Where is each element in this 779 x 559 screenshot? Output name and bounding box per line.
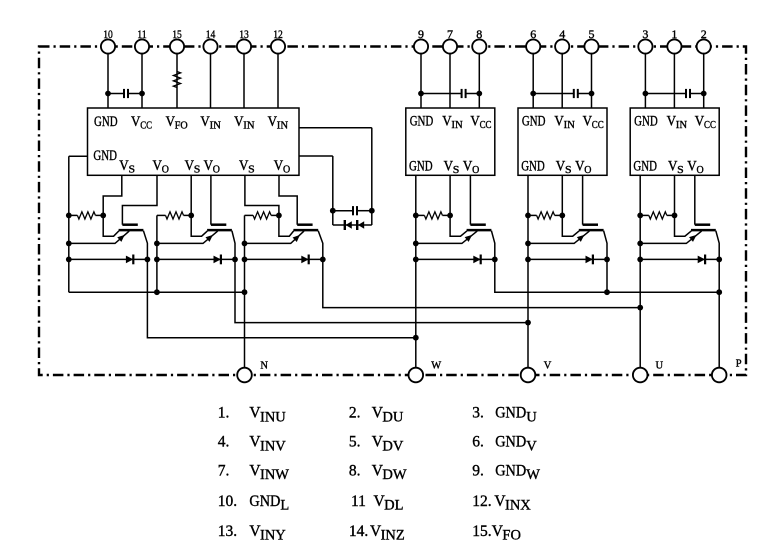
svg-text:O: O	[472, 164, 479, 176]
svg-text:INV: INV	[260, 438, 286, 454]
svg-text:DW: DW	[382, 467, 406, 483]
svg-text:IN: IN	[676, 119, 687, 131]
svg-text:GND: GND	[495, 434, 526, 451]
svg-text:14.: 14.	[349, 523, 368, 540]
svg-text:S: S	[194, 163, 201, 175]
svg-text:IN: IN	[210, 119, 221, 131]
svg-text:11: 11	[351, 493, 366, 510]
svg-text:2: 2	[701, 27, 707, 41]
svg-text:6.: 6.	[472, 434, 484, 451]
svg-text:9: 9	[418, 27, 424, 41]
svg-text:GND: GND	[249, 493, 280, 510]
svg-text:GND: GND	[633, 158, 657, 174]
svg-text:6: 6	[530, 27, 536, 41]
svg-text:O: O	[697, 164, 704, 176]
svg-text:14: 14	[206, 27, 216, 41]
svg-text:O: O	[213, 163, 220, 175]
svg-text:DV: DV	[382, 438, 403, 454]
svg-text:N: N	[260, 360, 268, 371]
svg-text:S: S	[453, 164, 460, 176]
svg-text:13: 13	[239, 27, 249, 41]
svg-text:10: 10	[103, 27, 113, 41]
svg-text:INU: INU	[260, 409, 286, 425]
svg-text:8: 8	[476, 27, 482, 41]
svg-text:15.: 15.	[472, 523, 491, 540]
svg-text:INZ: INZ	[381, 528, 405, 544]
svg-text:GND: GND	[94, 114, 118, 130]
svg-text:9.: 9.	[472, 463, 484, 480]
svg-text:2.: 2.	[349, 405, 361, 422]
svg-text:7: 7	[447, 27, 453, 41]
svg-text:GND: GND	[495, 463, 526, 480]
svg-text:W: W	[431, 361, 441, 372]
svg-text:5.: 5.	[349, 434, 361, 451]
svg-text:O: O	[584, 164, 591, 176]
svg-text:P: P	[736, 359, 742, 370]
svg-text:15: 15	[172, 27, 182, 41]
svg-text:CC: CC	[592, 119, 604, 131]
svg-text:GND: GND	[521, 158, 545, 174]
svg-text:4: 4	[559, 27, 565, 41]
svg-text:W: W	[526, 467, 540, 483]
svg-text:3: 3	[642, 27, 648, 41]
svg-text:CC: CC	[704, 119, 716, 131]
svg-text:12: 12	[273, 27, 283, 41]
svg-text:V: V	[544, 360, 552, 371]
svg-text:DL: DL	[384, 498, 403, 514]
svg-text:13.: 13.	[218, 523, 237, 540]
svg-text:O: O	[283, 163, 290, 175]
svg-text:L: L	[280, 498, 289, 514]
svg-text:GND: GND	[409, 158, 433, 174]
svg-text:INW: INW	[260, 467, 289, 483]
svg-text:INX: INX	[505, 498, 531, 514]
svg-text:INY: INY	[260, 528, 286, 544]
svg-text:GND: GND	[522, 114, 546, 130]
svg-text:O: O	[162, 163, 169, 175]
svg-text:S: S	[565, 164, 572, 176]
svg-text:1.: 1.	[218, 405, 230, 422]
svg-text:12.: 12.	[472, 493, 491, 510]
svg-text:S: S	[677, 164, 684, 176]
svg-text:S: S	[248, 163, 255, 175]
svg-text:8.: 8.	[349, 463, 361, 480]
svg-text:U: U	[526, 409, 537, 425]
svg-text:IN: IN	[451, 119, 462, 131]
svg-text:GND: GND	[495, 405, 526, 422]
svg-text:IN: IN	[277, 119, 288, 131]
svg-text:FO: FO	[502, 528, 521, 544]
svg-text:IN: IN	[564, 119, 575, 131]
svg-text:10.: 10.	[218, 493, 237, 510]
svg-text:IN: IN	[243, 119, 254, 131]
svg-text:7.: 7.	[218, 463, 230, 480]
svg-text:V: V	[526, 438, 537, 454]
svg-text:FO: FO	[175, 119, 188, 131]
svg-text:DU: DU	[382, 409, 403, 425]
svg-text:CC: CC	[480, 119, 492, 131]
svg-text:U: U	[656, 360, 664, 371]
svg-text:GND: GND	[634, 114, 658, 130]
svg-text:S: S	[129, 163, 136, 175]
svg-text:CC: CC	[140, 119, 152, 131]
svg-text:11: 11	[137, 27, 147, 41]
svg-text:1: 1	[671, 27, 677, 41]
svg-text:3.: 3.	[472, 405, 484, 422]
svg-text:4.: 4.	[218, 434, 230, 451]
svg-text:GND: GND	[93, 148, 117, 164]
svg-text:GND: GND	[410, 114, 434, 130]
svg-text:5: 5	[589, 27, 595, 41]
